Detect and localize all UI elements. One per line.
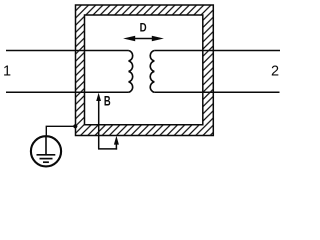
ground circle	[31, 136, 61, 166]
arrow B vertical shaft	[98, 98, 100, 149]
ground bar long	[37, 154, 56, 156]
ground bar middle	[40, 158, 53, 160]
inductor L2 (right coil)	[150, 51, 154, 93]
ground stem	[45, 137, 47, 155]
junction dot on shield wall	[73, 124, 77, 128]
arrow B head	[96, 93, 101, 101]
arrowhead at shield bottom wall	[114, 136, 119, 145]
wire: right coil bottom lead to terminal 2 bottom line	[154, 91, 279, 93]
svg-text:B: B	[104, 93, 111, 108]
wire: hook horizontal segment	[98, 148, 117, 150]
svg-text:D: D	[140, 23, 147, 35]
dimension arrow D (double headed)	[123, 36, 164, 41]
wire: terminal 2 top line into right coil	[154, 50, 280, 52]
wire: hook riser to shield bottom	[115, 141, 117, 150]
svg-text:2: 2	[271, 64, 279, 80]
wire: left coil bottom lead to terminal 1 bottom line	[6, 91, 129, 93]
ground bar short	[43, 161, 49, 163]
arrow B (points up at coil bottom lead)	[96, 93, 119, 150]
arrow D shaft	[128, 38, 159, 40]
arrow D left head	[123, 36, 135, 41]
ground (protective earth symbol)	[31, 136, 61, 166]
shield enclosure (hatched walls)	[76, 5, 214, 136]
inductor L1 (left coil)	[129, 51, 133, 93]
arrow D right head	[152, 36, 164, 41]
wire: terminal 1 top line into left coil	[6, 50, 129, 52]
ground wire from earth symbol to shield wall	[46, 126, 75, 136]
svg-text:1: 1	[3, 64, 11, 80]
